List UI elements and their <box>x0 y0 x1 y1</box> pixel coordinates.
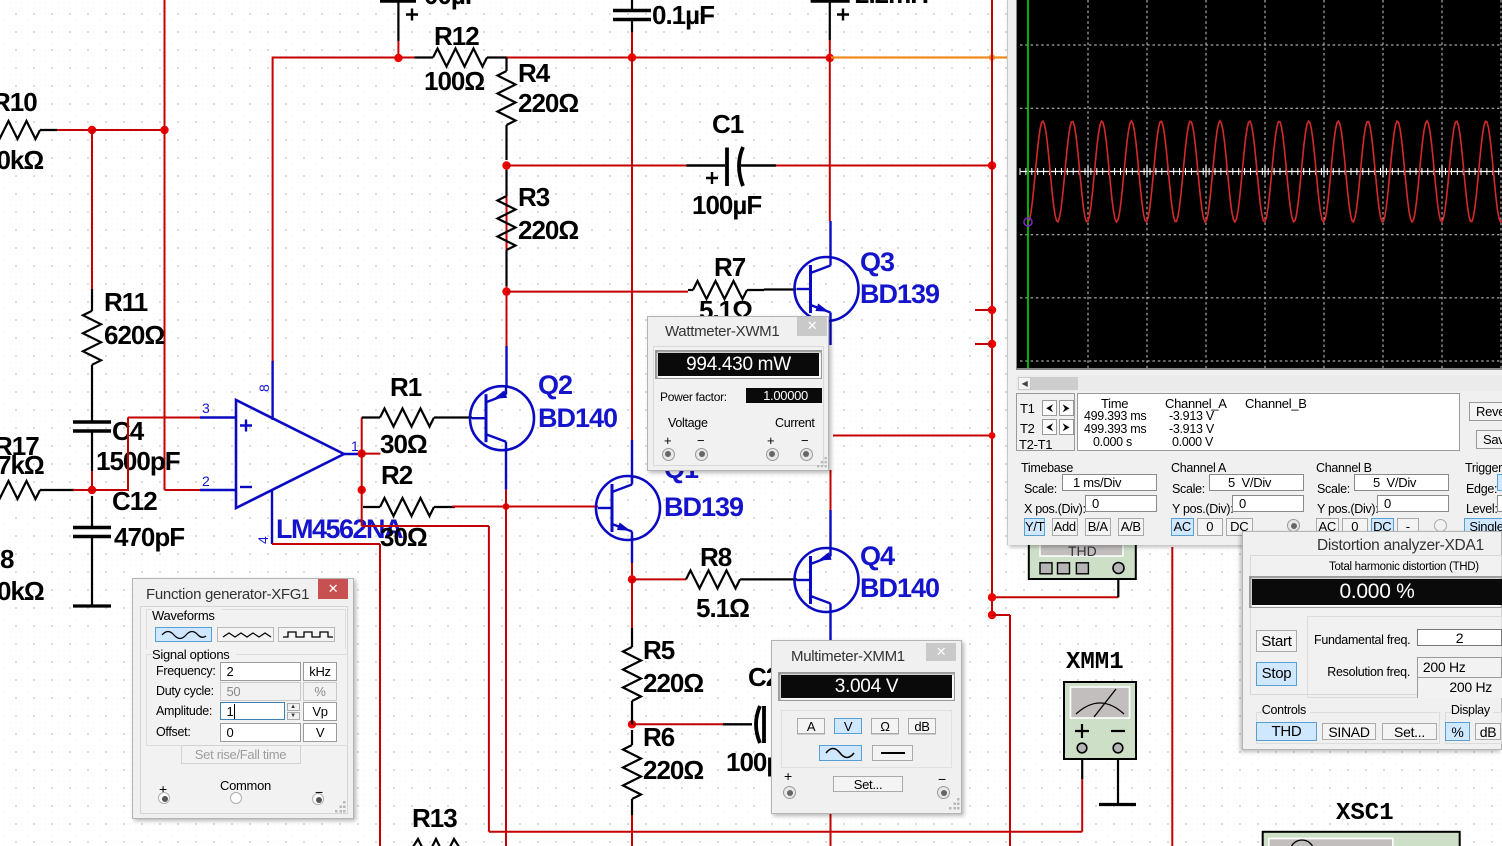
wire node to C2 <box>632 723 723 725</box>
node stub V+ <box>975 306 996 314</box>
svg-text:R7: R7 <box>714 252 746 282</box>
wire output to R1 <box>361 418 363 455</box>
node rail-C5 junction <box>394 54 402 62</box>
capacitor C4 1500pF <box>73 416 180 476</box>
svg-text:3: 3 <box>202 400 210 416</box>
svg-text:BD139: BD139 <box>860 279 940 309</box>
pin 8 label <box>256 384 272 392</box>
resistor R6 220ohm <box>623 718 703 846</box>
svg-text:BD139: BD139 <box>664 492 744 522</box>
window Oscilloscope XSC1 (open, partial) <box>1007 0 1502 545</box>
transistor Q3 BD139 <box>795 256 859 322</box>
inductor L1 2.2mH (top right, partial) <box>811 0 929 58</box>
resistor R4 220ohm <box>498 58 579 161</box>
wire Q2 emitter down <box>505 450 507 846</box>
wire feedback vertical <box>164 0 166 490</box>
svg-text:R5: R5 <box>643 635 675 665</box>
svg-text:2: 2 <box>202 473 210 489</box>
node probe crossing <box>989 54 995 60</box>
wire Q1 emitter down <box>631 536 633 579</box>
node C1 to main bus right <box>988 161 996 169</box>
wire THD instrument to bus <box>992 573 1118 597</box>
wire rail drop to op-amp pin 8 <box>272 57 274 363</box>
svg-text:R8: R8 <box>700 542 732 572</box>
resistor R5 220ohm <box>623 579 703 718</box>
node R5/R6/C2 <box>628 720 636 728</box>
instrument icon XMM1 multimeter <box>1064 682 1136 759</box>
resistor R2 30ohm <box>363 460 455 552</box>
svg-text:220Ω: 220Ω <box>518 215 578 245</box>
instrument icon THD analyzer <box>1029 540 1136 579</box>
resistor R18 (partial labels) <box>0 544 44 606</box>
node Q2 emitter / R2 junction <box>503 503 510 510</box>
wire V+ rail top <box>273 57 830 59</box>
wire op-amp pin4 to bottom <box>272 544 380 846</box>
node Q1 emitter / R8 / R5 <box>628 575 636 583</box>
capacitor C12 470pF <box>73 486 184 605</box>
svg-text:R3: R3 <box>518 182 550 212</box>
wire scope probe (orange) <box>831 56 1008 58</box>
resistor R10 <box>0 87 57 175</box>
svg-text:220Ω: 220Ω <box>643 755 703 785</box>
wire R8 to Q4 base <box>765 578 797 580</box>
wire R7 row <box>507 291 689 293</box>
svg-text:R6: R6 <box>643 722 675 752</box>
ground (below C12) <box>73 604 111 607</box>
svg-text:4: 4 <box>255 536 271 544</box>
svg-text:C1: C1 <box>712 109 744 139</box>
svg-text:0.1µF: 0.1µF <box>652 0 714 30</box>
svg-text:1500pF: 1500pF <box>96 446 180 476</box>
wire R2 to Q1 base <box>452 506 598 508</box>
svg-text:620Ω: 620Ω <box>104 320 164 350</box>
svg-text:0kΩ: 0kΩ <box>0 576 44 606</box>
node feedback junction <box>358 454 366 526</box>
window Function generator-XFG1 <box>132 578 354 819</box>
svg-text:R13: R13 <box>412 803 457 833</box>
node rail-C3 junction <box>628 53 636 61</box>
resistor R12 <box>415 21 507 96</box>
svg-text:100µF: 100µF <box>692 190 761 220</box>
wire Q3 collector to rail <box>829 58 832 259</box>
svg-text:Q3: Q3 <box>860 247 895 277</box>
svg-text:R1: R1 <box>390 372 422 402</box>
capacitor C2 100uF <box>723 662 795 777</box>
wire R10 to node <box>57 129 92 131</box>
svg-text:8: 8 <box>0 544 14 574</box>
wire R7 to Q3 base <box>764 288 796 290</box>
resistor R17 <box>0 431 75 499</box>
node R4/R3/C1 <box>502 161 510 169</box>
svg-text:Q4: Q4 <box>860 541 895 571</box>
node bus corner <box>988 611 1010 846</box>
node input B <box>160 126 168 134</box>
svg-text:220Ω: 220Ω <box>643 668 703 698</box>
svg-text:XSC1: XSC1 <box>1336 800 1394 827</box>
svg-text:R10: R10 <box>0 87 37 117</box>
resistor R7 5.1ohm <box>688 252 764 325</box>
svg-text:30Ω: 30Ω <box>380 522 427 552</box>
transistor Q4 BD140 <box>795 547 859 613</box>
svg-text:220Ω: 220Ω <box>518 88 578 118</box>
op-amp U1 LM4562NA <box>200 361 362 544</box>
svg-text:R11: R11 <box>104 287 148 317</box>
svg-text:7kΩ: 7kΩ <box>0 450 44 480</box>
wire Q1 collector up <box>631 58 633 483</box>
wire XMM1 minus to ground <box>1117 754 1119 803</box>
resistor R3 220ohm <box>498 170 579 286</box>
node THD stub <box>988 593 996 601</box>
transistor Q2 BD140 <box>470 385 534 451</box>
window Wattmeter-XWM1 <box>647 316 829 471</box>
svg-text:BD140: BD140 <box>538 403 617 433</box>
capacitor C5 (top, partial) <box>380 0 480 58</box>
wire main right bus vertical <box>991 0 993 615</box>
svg-text:8: 8 <box>256 384 272 392</box>
capacitor C1 100uF <box>507 109 993 220</box>
svg-text:470pF: 470pF <box>114 522 184 552</box>
node C (R17/C4/C12 junction) <box>88 486 96 494</box>
svg-text:30Ω: 30Ω <box>380 429 427 459</box>
capacitor C3 0.1uF <box>613 0 714 58</box>
instrument icon XSC1 oscilloscope (partial) <box>1263 832 1460 846</box>
wire R1 to Q2 base <box>455 416 472 418</box>
svg-text:R2: R2 <box>381 460 413 490</box>
wire Q4 collector up <box>829 470 831 549</box>
wire node C to op-amp pin3 <box>92 418 201 492</box>
wire node A to node B <box>92 129 165 131</box>
svg-text:5.1Ω: 5.1Ω <box>696 593 749 623</box>
ground (XMM1) <box>1099 803 1136 806</box>
svg-text:R4: R4 <box>518 58 551 88</box>
window Multimeter-XMM1 <box>771 640 962 814</box>
svg-text:1: 1 <box>351 438 359 454</box>
wire Q4 emitter down <box>829 611 831 846</box>
svg-text:10kΩ: 10kΩ <box>0 145 43 175</box>
resistor R8 5.1ohm <box>632 542 765 623</box>
wire bus corner up to XMM1 plus <box>1081 754 1083 832</box>
node R3/R7/Q2 <box>502 287 510 295</box>
wire output net down to bus <box>362 526 489 832</box>
svg-text:THD: THD <box>1068 543 1097 559</box>
wire node A down to R11 <box>91 130 93 289</box>
svg-text:00µF: 00µF <box>424 0 480 10</box>
wire R3/R4 node to Q2 collector <box>506 166 508 388</box>
node stub V- <box>975 340 996 348</box>
svg-text:BD140: BD140 <box>860 573 939 603</box>
wire C4 to node C <box>91 471 93 490</box>
node input A <box>88 126 96 134</box>
wire Q3 emitter down <box>829 321 831 345</box>
svg-text:R12: R12 <box>434 21 479 51</box>
transistor Q1 BD139 <box>596 475 660 541</box>
node output pin1 <box>358 449 381 457</box>
resistor R13 (partial bottom) <box>411 803 461 846</box>
window Distortion analyzer-XDA1 <box>1242 531 1502 750</box>
wire wattmeter out to bus <box>833 432 995 439</box>
wire ground bus bottom <box>489 831 1082 833</box>
svg-text:XMM1: XMM1 <box>1066 649 1124 676</box>
svg-text:Q2: Q2 <box>538 370 572 400</box>
wire right distortion bus <box>1171 547 1173 846</box>
resistor R1 30ohm <box>362 372 455 459</box>
svg-text:2.2mH: 2.2mH <box>855 0 928 9</box>
pin 4 label <box>255 536 271 544</box>
svg-text:100Ω: 100Ω <box>424 66 484 96</box>
wire node B to op-amp pin2 <box>165 489 202 491</box>
node rail-L1 junction <box>826 54 834 62</box>
resistor R11 <box>83 287 164 422</box>
